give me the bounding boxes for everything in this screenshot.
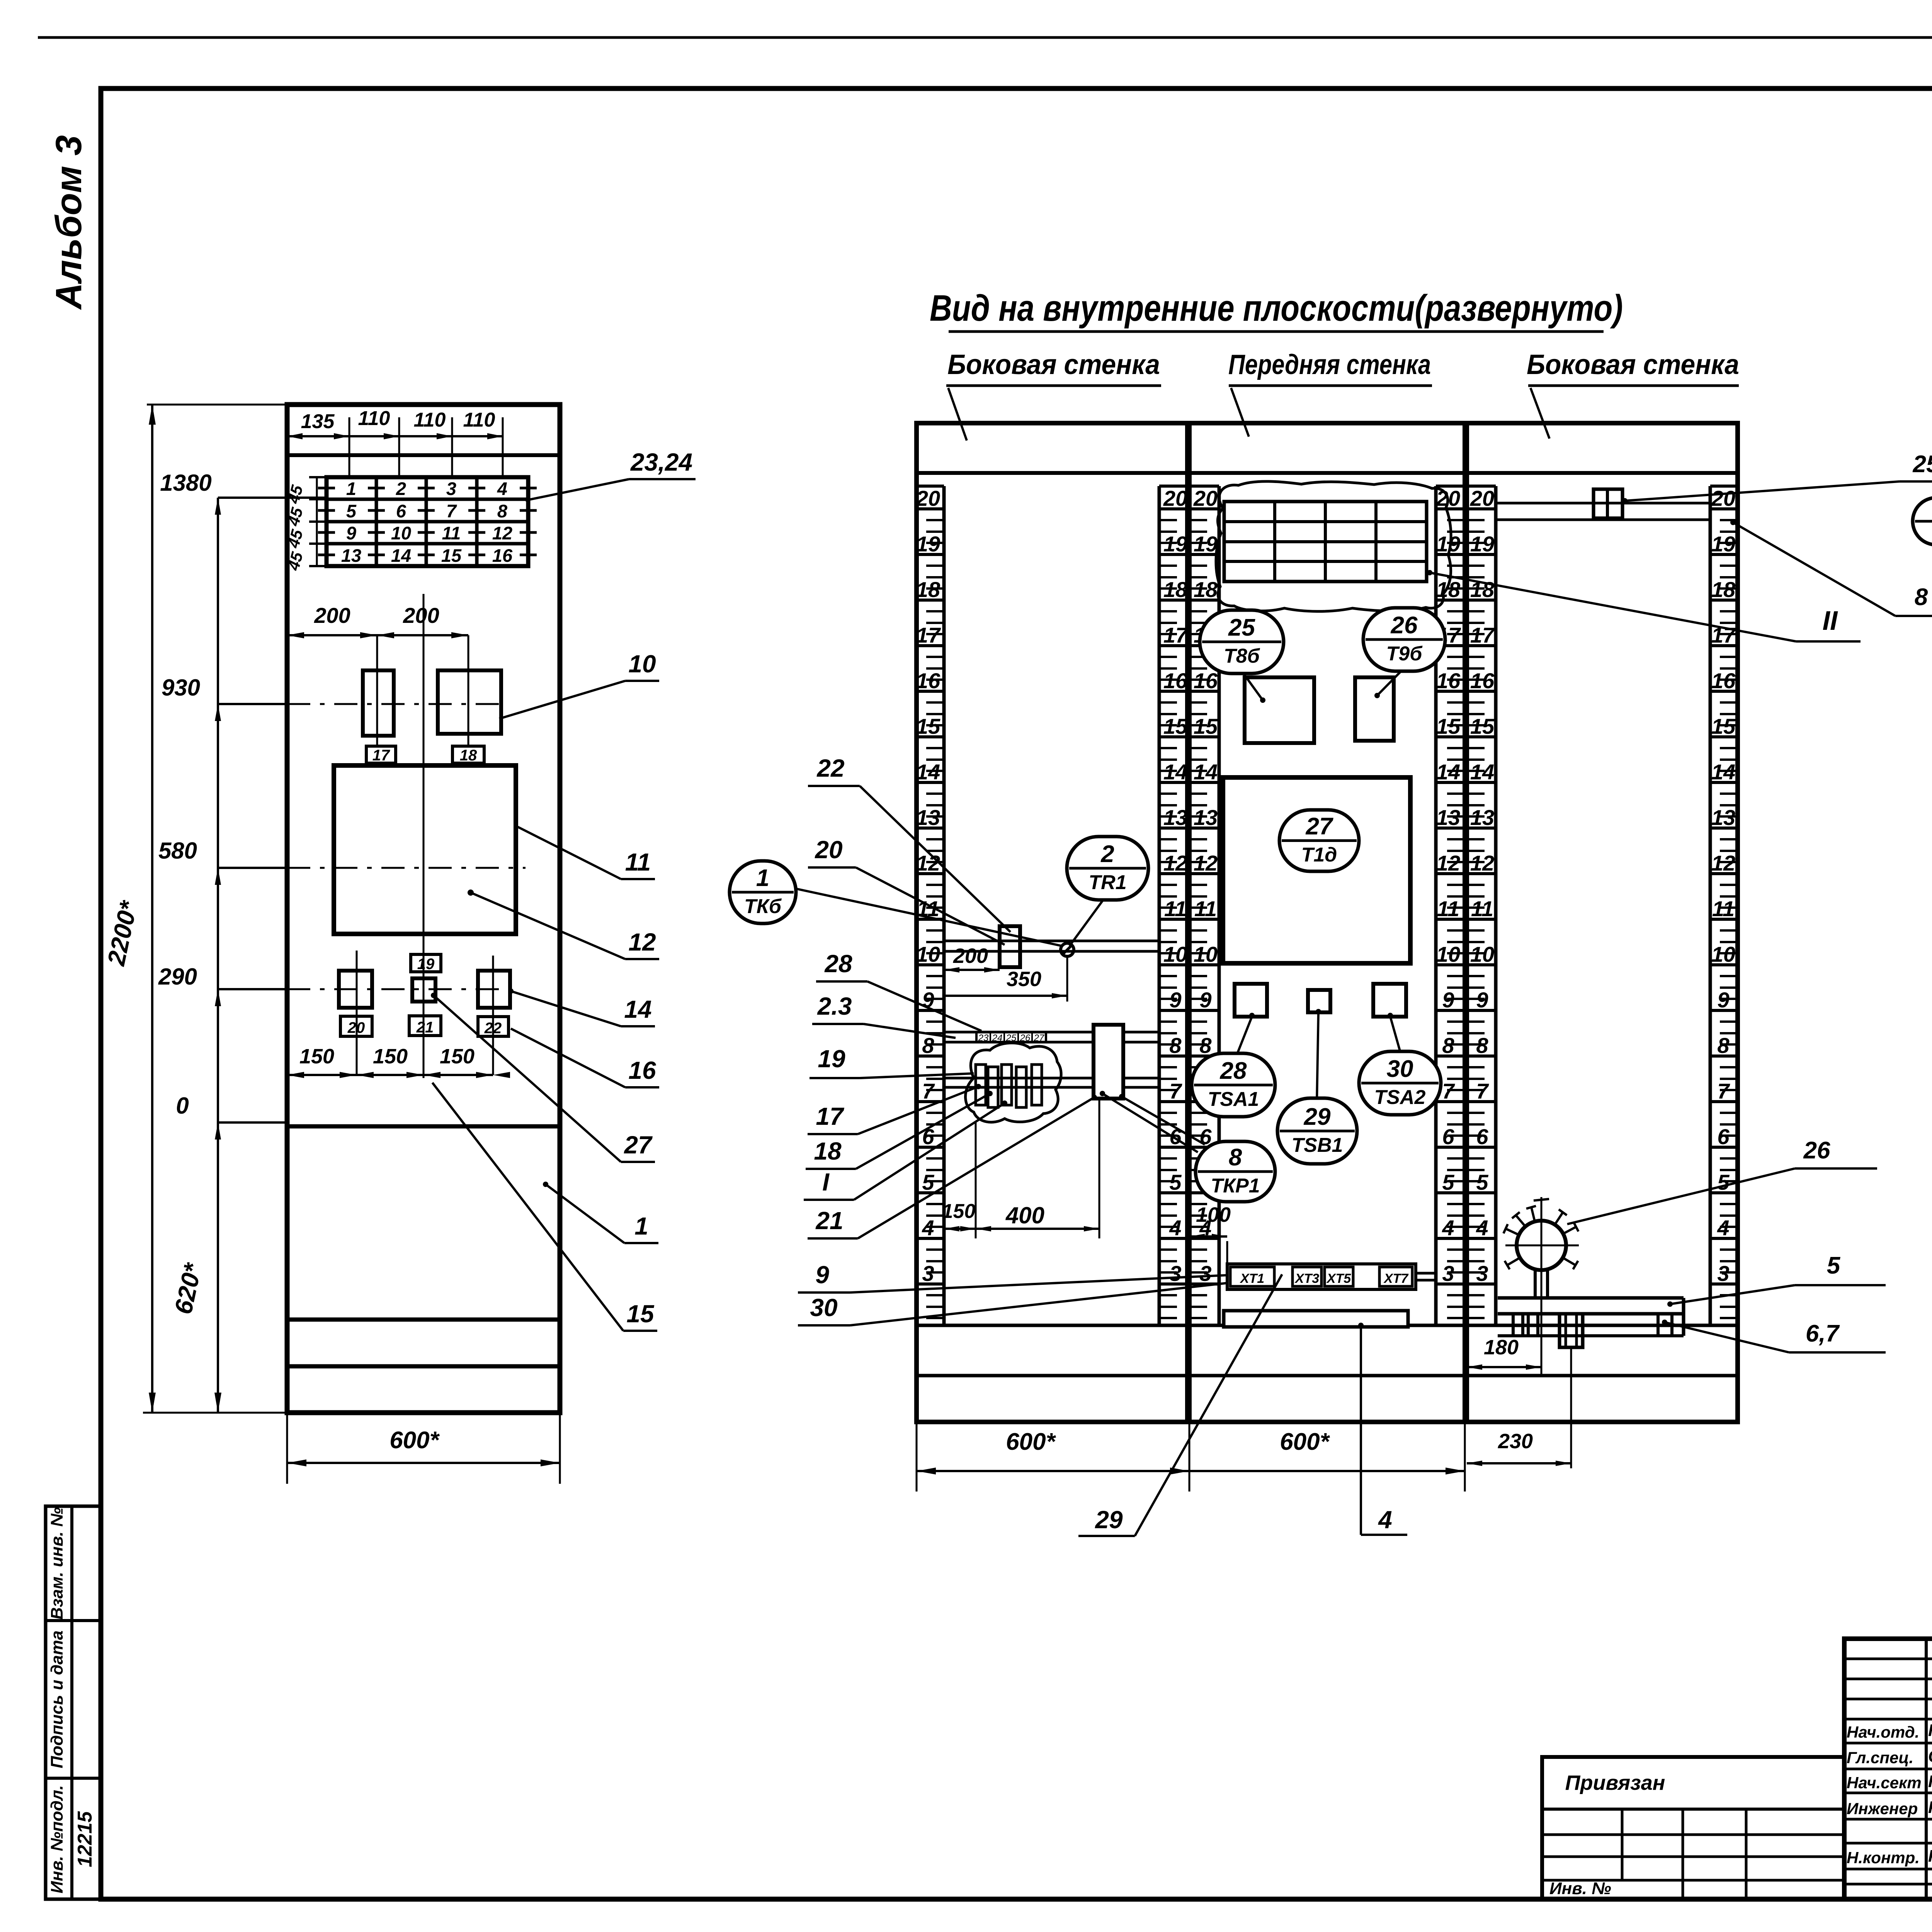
svg-text:Передняя стенка: Передняя стенка (1228, 349, 1431, 380)
leader I to cloud (804, 1199, 854, 1201)
svg-text:20: 20 (815, 836, 842, 864)
wire pair terminal strip row (944, 1031, 1094, 1034)
svg-text:11: 11 (625, 848, 651, 876)
binding table (1542, 1757, 1844, 1899)
svg-text:Гл.спец.: Гл.спец. (1847, 1748, 1913, 1767)
svg-text:2.3: 2.3 (817, 992, 852, 1020)
svg-text:Каневская: Каневская (1928, 1772, 1932, 1791)
leader 21 to tall rectangle (808, 1237, 858, 1240)
svg-text:21: 21 (416, 1019, 434, 1036)
leader 9 to XT strip (798, 1291, 850, 1294)
sheet outer top edge (38, 36, 1932, 39)
leader to oval 28 (1235, 1017, 1252, 1060)
svg-text:Н.контр.: Н.контр. (1847, 1849, 1920, 1867)
svg-text:12215: 12215 (74, 1811, 96, 1867)
terminal field blob outline (1216, 481, 1451, 611)
svg-text:350: 350 (1007, 968, 1041, 991)
vertical dimension chain 620* (217, 498, 219, 1413)
svg-text:9: 9 (346, 523, 356, 543)
svg-text:135: 135 (301, 410, 335, 433)
title block left rows (1844, 1658, 1932, 1660)
svg-text:10: 10 (391, 523, 411, 543)
cabinet top band line (287, 453, 560, 457)
leader 2.3 to wire (812, 1023, 864, 1025)
svg-text:20: 20 (1711, 486, 1735, 510)
oval label 2/TR1 (1067, 837, 1148, 900)
svg-text:Непомнящий: Непомнящий (1928, 1721, 1932, 1740)
svg-text:20: 20 (1163, 486, 1187, 510)
svg-text:150: 150 (440, 1045, 474, 1068)
svg-text:ТR1: ТR1 (1088, 871, 1126, 894)
svg-text:16: 16 (492, 545, 513, 566)
svg-text:27: 27 (1306, 813, 1333, 840)
indicator lamp rectangle left (363, 670, 394, 736)
svg-text:5: 5 (346, 501, 357, 521)
leader 10 to indicator (625, 680, 659, 682)
svg-text:150: 150 (373, 1045, 408, 1068)
leader to oval 29 (1317, 1012, 1318, 1102)
dimension 600* right (1189, 1470, 1465, 1472)
svg-text:19: 19 (417, 956, 435, 973)
svg-text:19: 19 (818, 1045, 845, 1073)
svg-text:28: 28 (824, 950, 852, 978)
oval label 28/TSA1 (1192, 1053, 1275, 1117)
cabinet base line 2 (287, 1364, 560, 1369)
svg-text:230: 230 (1498, 1430, 1533, 1453)
leader oval25 to device (1243, 673, 1263, 700)
oval label 1/TKb (730, 861, 796, 923)
dimension 150 150 150 (287, 1074, 493, 1076)
svg-text:30: 30 (1387, 1056, 1413, 1082)
svg-text:150: 150 (299, 1045, 334, 1068)
terminal strip 23-27 (976, 1032, 1046, 1042)
svg-text:10: 10 (628, 650, 656, 678)
svg-text:930: 930 (162, 675, 200, 701)
indicator device rectangle right (438, 670, 501, 734)
poz box 19 (411, 954, 441, 972)
svg-text:14: 14 (624, 995, 651, 1023)
svg-text:Рыков: Рыков (1928, 1847, 1932, 1866)
svg-text:7: 7 (446, 501, 457, 521)
oval label 25/T8b (1200, 610, 1284, 673)
leader 18 to cloud contact (806, 1168, 856, 1170)
left wall panel outline (917, 423, 1187, 1422)
svg-text:16: 16 (628, 1056, 656, 1084)
leader 11 to big rectangle edge (621, 878, 655, 880)
sidebar table (46, 1506, 101, 1899)
svg-text:1: 1 (756, 865, 769, 891)
svg-text:580: 580 (158, 838, 197, 864)
svg-text:Альбом 3: Альбом 3 (48, 135, 89, 310)
wire pair upper left panel (944, 940, 1159, 942)
ruler scale front panel right (1436, 486, 1465, 1325)
vertical dimension 2200* (151, 405, 153, 1413)
svg-text:25: 25 (1913, 451, 1932, 478)
svg-text:Т9б: Т9б (1386, 643, 1423, 665)
svg-text:28: 28 (1220, 1058, 1247, 1084)
button square middle (1308, 990, 1330, 1012)
component cloud outline (966, 1043, 1061, 1122)
svg-text:Боковая стенка: Боковая стенка (1527, 349, 1739, 380)
grid top dimension line 135 110 110 110 (287, 435, 503, 437)
svg-text:Инженер: Инженер (1847, 1799, 1918, 1818)
svg-text:11: 11 (442, 523, 461, 543)
leader 19 to wire pair (810, 1077, 860, 1079)
leader to oval 30 (1390, 1017, 1401, 1055)
svg-text:5: 5 (1827, 1252, 1841, 1279)
svg-text:180: 180 (1484, 1336, 1519, 1359)
svg-text:30: 30 (810, 1294, 837, 1321)
svg-text:18: 18 (460, 747, 477, 764)
svg-text:15: 15 (441, 545, 462, 566)
svg-text:ХТ1: ХТ1 (1240, 1271, 1264, 1286)
cabinet centerline (423, 594, 425, 1078)
ruler scale right panel right (1710, 486, 1738, 1325)
junction box component (1594, 489, 1622, 518)
wire pair right panel (1496, 502, 1710, 505)
svg-text:Нач.сект: Нач.сект (1847, 1774, 1922, 1792)
ruler scale left panel right (1159, 486, 1189, 1325)
svg-text:Инв. №подл.: Инв. №подл. (48, 1785, 66, 1893)
leader 28 to terminal strip 23-27 (816, 980, 867, 983)
svg-text:12: 12 (628, 928, 656, 956)
svg-text:12: 12 (492, 523, 512, 543)
front view cabinet outline (287, 405, 560, 1413)
svg-text:100: 100 (1196, 1203, 1231, 1226)
svg-text:6: 6 (396, 501, 406, 521)
switch square left (339, 971, 372, 1008)
dimension 600* left (917, 1470, 1189, 1472)
button square right (1373, 984, 1406, 1017)
svg-text:2: 2 (396, 478, 406, 499)
panel lower horizontal line 1 (917, 1324, 1738, 1327)
svg-text:20: 20 (916, 486, 940, 510)
svg-text:II: II (1823, 605, 1838, 636)
leader 14 to right switch (621, 1025, 655, 1027)
svg-text:400: 400 (1005, 1202, 1044, 1228)
svg-text:Взам. инв. №: Взам. инв. № (48, 1507, 66, 1620)
ruler scale front panel left (1189, 486, 1219, 1325)
cabinet zero level line (287, 1124, 560, 1129)
pressure gauge (1517, 1221, 1566, 1270)
svg-text:290: 290 (158, 964, 197, 990)
svg-text:ТКб: ТКб (744, 895, 782, 918)
grid row dimension 45x4 (316, 477, 318, 566)
svg-text:Т1д: Т1д (1301, 844, 1337, 866)
title block outline (1844, 1639, 1932, 1899)
svg-text:22: 22 (816, 754, 844, 782)
leader oval26 to device (1377, 671, 1401, 696)
svg-text:2: 2 (1100, 841, 1114, 867)
dimension 150 400 left panel (944, 1228, 1099, 1230)
svg-text:I: I (822, 1168, 830, 1196)
terminal field grid (1224, 502, 1427, 582)
panel lower horizontal line 2 (917, 1374, 1738, 1378)
leader 17 to cloud contact (808, 1133, 858, 1135)
svg-text:8: 8 (1915, 584, 1928, 611)
button square left (1235, 984, 1267, 1017)
svg-text:13: 13 (341, 545, 361, 566)
svg-text:6,7: 6,7 (1806, 1320, 1840, 1347)
svg-text:27: 27 (624, 1131, 653, 1159)
svg-text:ХТ3: ХТ3 (1294, 1271, 1319, 1286)
shelf legs (1512, 1314, 1515, 1336)
poz box 20 (340, 1016, 372, 1036)
oval label 8/TKP1 (1196, 1141, 1275, 1202)
svg-text:Розничева: Розничева (1928, 1798, 1932, 1817)
terminal strip XT (1227, 1264, 1416, 1289)
mounting plate (1224, 1311, 1408, 1327)
svg-text:0: 0 (176, 1093, 189, 1119)
svg-text:14: 14 (391, 545, 411, 566)
svg-text:20: 20 (347, 1019, 365, 1036)
svg-text:200: 200 (314, 603, 350, 628)
svg-text:200: 200 (953, 944, 988, 968)
leader 15 to centerline (623, 1330, 657, 1332)
svg-text:600*: 600* (1006, 1429, 1056, 1455)
poz box 17 (366, 746, 396, 763)
oval label 29/TSB1 (1277, 1098, 1357, 1164)
oval label 26/T9b (1363, 608, 1445, 671)
svg-text:4: 4 (497, 478, 507, 499)
leader 16 to poz 22 box (625, 1086, 659, 1088)
ruler scale right panel left (1467, 486, 1496, 1325)
svg-text:Нач.отд.: Нач.отд. (1847, 1723, 1919, 1741)
extension line left switch (356, 951, 358, 1075)
cable clamp circle (1061, 943, 1074, 956)
leader 12 to big rectangle (625, 958, 659, 960)
svg-text:200: 200 (403, 603, 439, 628)
leaders oval8 to tall rectangle (1102, 1094, 1198, 1152)
svg-text:26: 26 (1391, 612, 1418, 639)
svg-text:Подпись и дата: Подпись и дата (48, 1631, 66, 1769)
ruler scale left panel left (916, 486, 944, 1325)
gauge stem (1534, 1269, 1537, 1298)
gauge shelf (1498, 1296, 1684, 1300)
leader 1 to cabinet side (624, 1242, 658, 1244)
svg-text:Т8б: Т8б (1224, 645, 1260, 667)
svg-text:29: 29 (1095, 1506, 1123, 1534)
leader 20 to TR1 rectangle (808, 866, 856, 869)
panel top band lines (917, 471, 1187, 475)
oval label 27/T1d (1279, 810, 1359, 871)
oval label 3/TSF1 (1913, 498, 1932, 545)
leader 22 to TR1 rectangle (808, 785, 860, 787)
svg-text:23,24: 23,24 (630, 448, 692, 476)
device rectangle below oval26 (1355, 677, 1394, 741)
svg-text:TSА1: TSА1 (1208, 1088, 1259, 1111)
terminal block grid 1-16 (327, 477, 528, 566)
svg-text:29: 29 (1304, 1104, 1331, 1130)
svg-text:ХТ7: ХТ7 (1383, 1271, 1409, 1286)
poz box 21 (409, 1016, 441, 1036)
shelf foot (1560, 1314, 1583, 1347)
svg-text:110: 110 (463, 409, 495, 431)
wire to XT strip right (1416, 1272, 1436, 1275)
gauge centerlines (1541, 1197, 1543, 1376)
svg-text:9: 9 (815, 1261, 829, 1289)
svg-text:15: 15 (626, 1300, 655, 1328)
svg-text:26: 26 (1803, 1137, 1830, 1164)
relay TR1 rectangle (1000, 926, 1020, 967)
svg-text:8: 8 (1229, 1144, 1242, 1171)
cabinet base line 1 (287, 1318, 560, 1322)
svg-text:ХТ5: ХТ5 (1326, 1271, 1351, 1286)
switch square right (478, 971, 510, 1008)
svg-text:1: 1 (634, 1212, 648, 1240)
dimension 350 left panel (944, 995, 1067, 997)
svg-text:110: 110 (414, 409, 446, 431)
svg-text:150: 150 (942, 1200, 976, 1223)
svg-text:600*: 600* (389, 1427, 440, 1454)
leader 27 to middle switch (621, 1161, 655, 1163)
svg-text:110: 110 (358, 407, 390, 430)
svg-text:Вид на внутренние плоскости(ра: Вид на внутренние плоскости(развернуто) (930, 287, 1623, 329)
svg-text:4: 4 (1378, 1506, 1392, 1534)
dimension 200 left panel (944, 969, 1000, 971)
svg-text:20: 20 (1193, 486, 1218, 510)
poz box 18 (452, 746, 484, 763)
extension line right switch (492, 956, 494, 1075)
svg-text:1: 1 (346, 478, 356, 499)
svg-text:3: 3 (446, 478, 456, 499)
dimension 200 200 (287, 634, 468, 636)
svg-text:Привязан: Привязан (1565, 1771, 1665, 1794)
svg-text:17: 17 (372, 747, 390, 764)
device rectangle below oval25 (1245, 677, 1314, 743)
svg-text:20: 20 (1470, 486, 1494, 510)
leader 30 to XT strip (798, 1324, 850, 1327)
instrument big rectangle (334, 765, 516, 934)
svg-text:21: 21 (815, 1207, 843, 1235)
leader 23,24 to terminal grid (629, 478, 696, 480)
poz box 22 (478, 1017, 509, 1036)
svg-text:600*: 600* (1280, 1429, 1330, 1455)
controller big rectangle T1d (1223, 777, 1410, 963)
svg-text:18: 18 (814, 1137, 842, 1165)
dimension 100 front panel (1189, 1235, 1227, 1238)
wire pair cloud row (944, 1077, 1094, 1080)
svg-text:Соколин: Соколин (1928, 1747, 1932, 1766)
svg-text:Боковая стенка: Боковая стенка (947, 349, 1160, 380)
oval label 30/TSA2 (1359, 1051, 1441, 1115)
svg-text:ТSА2: ТSА2 (1374, 1086, 1426, 1109)
extension below cloud (975, 1122, 977, 1238)
svg-text:8: 8 (497, 501, 508, 521)
svg-text:ТКР1: ТКР1 (1211, 1175, 1260, 1197)
switch square middle (412, 978, 435, 1002)
dimension 600* front view (287, 1462, 560, 1464)
right wall panel outline (1467, 423, 1738, 1422)
svg-text:22: 22 (484, 1020, 502, 1037)
svg-text:17: 17 (816, 1102, 845, 1130)
extension below tall rectangle (1099, 1099, 1100, 1238)
svg-text:Инв. №: Инв. № (1549, 1879, 1611, 1898)
terminal device tall rectangle (1094, 1025, 1123, 1099)
svg-text:25: 25 (1228, 614, 1255, 641)
svg-text:1380: 1380 (160, 470, 211, 496)
svg-text:ТSВ1: ТSВ1 (1292, 1134, 1343, 1156)
title block left columns (1925, 1639, 1928, 1899)
relay contacts in cloud (976, 1065, 986, 1105)
front wall panel outline (1189, 423, 1465, 1422)
